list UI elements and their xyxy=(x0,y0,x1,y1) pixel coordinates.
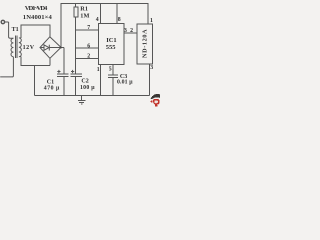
wire C1 top xyxy=(61,47,64,74)
resistor R1 wires xyxy=(75,4,77,75)
transformer core xyxy=(16,36,18,58)
wire C1 bottom xyxy=(63,76,65,95)
diode cathode bar xyxy=(48,45,50,51)
wire pin6 xyxy=(76,47,99,49)
svg-text:3: 3 xyxy=(150,65,153,71)
IC1 555 box xyxy=(99,24,124,65)
resistor R1 body xyxy=(74,7,78,17)
wire primary top xyxy=(5,22,14,38)
wire pin2 xyxy=(76,58,99,60)
wire pin3 to ND pin2 xyxy=(124,32,137,34)
svg-text:T1: T1 xyxy=(12,27,19,33)
wire secondary top to bridge top xyxy=(20,25,50,38)
svg-text:7: 7 xyxy=(87,25,90,31)
wire ground riser xyxy=(33,65,35,95)
svg-text:2: 2 xyxy=(130,28,133,34)
ND-120A box xyxy=(137,24,153,64)
svg-text:470 μ: 470 μ xyxy=(44,86,60,92)
svg-text:0.01 μ: 0.01 μ xyxy=(117,80,133,86)
svg-text:100 μ: 100 μ xyxy=(80,85,95,91)
capacitor C3 plates xyxy=(108,75,118,77)
wire bridge bottom xyxy=(49,58,51,65)
watermark logo red dot xyxy=(151,100,153,102)
svg-text:VD1~VD4: VD1~VD4 xyxy=(25,5,48,12)
svg-text:555: 555 xyxy=(106,44,117,51)
wire positive rail xyxy=(61,4,148,48)
svg-text:ND-120A: ND-120A xyxy=(141,29,148,58)
C2 plus sign xyxy=(71,70,74,73)
wire pin4 xyxy=(99,4,101,24)
wire primary bottom xyxy=(0,57,13,77)
diode line xyxy=(40,47,61,49)
wire ND pin3 to ground xyxy=(148,64,150,96)
ground rail xyxy=(34,95,149,97)
ground symbol xyxy=(78,96,86,105)
capacitor C2 plates xyxy=(70,74,81,76)
wire C3 bottom xyxy=(112,78,114,96)
svg-text:1N4001×4: 1N4001×4 xyxy=(23,14,53,21)
AC terminal top xyxy=(1,20,4,23)
svg-text:1: 1 xyxy=(97,67,100,73)
svg-text:C2: C2 xyxy=(81,79,88,85)
wire pin8 xyxy=(116,4,118,24)
transformer T1 primary coil xyxy=(11,38,13,56)
svg-text:3: 3 xyxy=(124,28,127,34)
svg-text:R1: R1 xyxy=(80,5,88,12)
svg-text:C1: C1 xyxy=(47,80,54,86)
svg-text:1: 1 xyxy=(150,18,153,24)
wire C2 bottom xyxy=(75,76,77,95)
svg-text:6: 6 xyxy=(87,43,90,49)
wire pin5 xyxy=(112,65,114,76)
svg-text:IC1: IC1 xyxy=(106,37,116,44)
wire IC pin1 to ground xyxy=(99,65,101,96)
junction bridge output xyxy=(60,46,62,48)
svg-text:2: 2 xyxy=(87,54,90,60)
svg-text:12V: 12V xyxy=(23,45,35,51)
capacitor C1 plates xyxy=(57,74,68,76)
watermark logo red blob xyxy=(153,99,160,105)
wire pin7 xyxy=(76,29,99,31)
wire secondary bottom to AC node xyxy=(20,57,50,66)
watermark logo dark swoosh xyxy=(151,94,160,99)
svg-text:1M: 1M xyxy=(80,12,89,19)
svg-text:4: 4 xyxy=(96,17,99,23)
svg-text:5: 5 xyxy=(109,66,112,72)
transformer T1 secondary coil xyxy=(19,38,21,57)
diode triangle xyxy=(44,45,49,50)
svg-text:8: 8 xyxy=(118,17,121,23)
C1 plus sign xyxy=(57,70,60,73)
bridge rectifier diamond VD1-VD4 xyxy=(40,37,61,59)
